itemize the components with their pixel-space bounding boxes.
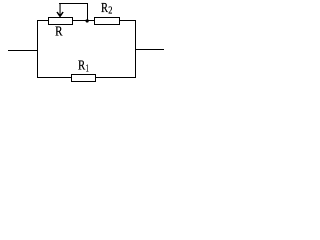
wire left external lead <box>8 50 37 52</box>
svg-text:R: R <box>78 58 85 73</box>
resistor R (rheostat body) <box>49 18 73 25</box>
resistor R1 body <box>72 75 96 82</box>
label R1 <box>78 58 89 75</box>
junction node dot <box>86 19 89 22</box>
wire R2 to right bus <box>120 20 137 22</box>
wire wiper loop down to junction <box>87 3 89 20</box>
wire left vertical bus <box>37 20 39 78</box>
label R2 <box>101 1 112 17</box>
wire R to junction to R2 <box>73 20 95 22</box>
resistor R2 body <box>95 18 120 25</box>
wiper arrow shaft <box>59 3 61 16</box>
svg-text:2: 2 <box>108 6 112 17</box>
wiper arrowhead <box>57 12 63 16</box>
wire bottom branch right of R1 <box>96 77 137 79</box>
wire top branch into R <box>37 20 49 22</box>
wire bottom branch left of R1 <box>37 77 72 79</box>
svg-text:R: R <box>55 23 62 38</box>
wire wiper loop top <box>59 3 88 5</box>
svg-text:1: 1 <box>86 64 89 75</box>
wire right vertical bus <box>135 20 137 78</box>
wire right external lead <box>135 49 164 51</box>
